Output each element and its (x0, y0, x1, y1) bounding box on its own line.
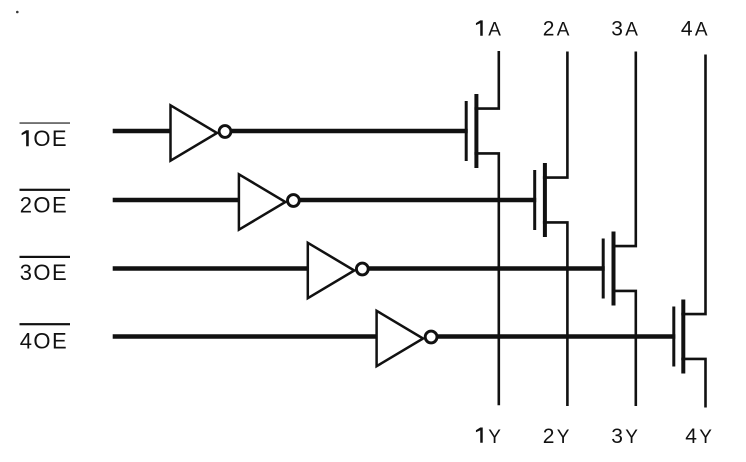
svg-text:A: A (557, 20, 570, 41)
svg-text:4: 4 (681, 18, 693, 41)
svg-text:3: 3 (611, 18, 623, 41)
svg-text:2OE: 2OE (20, 193, 68, 218)
svg-text:OE: OE (33, 126, 68, 151)
svg-text:Y: Y (557, 427, 570, 448)
svg-text:3: 3 (611, 425, 623, 448)
svg-text:3OE: 3OE (20, 260, 68, 285)
svg-text:A: A (625, 20, 638, 41)
svg-text:4OE: 4OE (20, 328, 68, 353)
svg-text:Y: Y (625, 427, 638, 448)
svg-text:Y: Y (699, 427, 712, 448)
svg-text:A: A (695, 20, 708, 41)
svg-text:A: A (488, 20, 501, 41)
svg-text:Y: Y (488, 427, 501, 448)
svg-text:4: 4 (685, 425, 697, 448)
svg-text:2: 2 (543, 18, 555, 41)
svg-text:2: 2 (543, 425, 555, 448)
